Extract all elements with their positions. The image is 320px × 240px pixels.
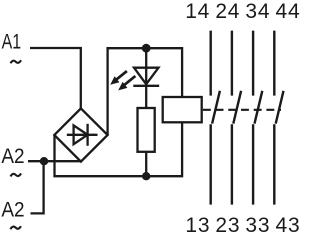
contact 3 blade [255,91,263,124]
wire A2 bottom up to junction [31,161,44,213]
contact 1 moving terminal 13 [209,124,211,204]
svg-text:33: 33 [245,214,270,235]
LED arrow 1 shaft [116,71,127,80]
bridge rectifier diamond [54,108,107,161]
wire DC minus rail: bridge left vertex down, across, up to coil bottom [55,122,183,176]
svg-text:23: 23 [215,214,240,235]
contact 4 fixed terminal 44 [273,31,275,96]
LED arrow 1 head [110,76,119,85]
junction dot bottom rail [142,172,150,180]
contact 2 fixed terminal 24 [231,31,233,96]
svg-text:A2: A2 [1,199,24,222]
mechanical link dashed line [203,109,281,111]
tilde A1 [10,60,21,63]
resistor R [138,108,155,152]
svg-text:44: 44 [276,0,300,23]
contact 2 blade [233,91,241,124]
junction dot top rail [142,44,151,53]
contact 1 blade [212,91,220,124]
wire DC plus rail: bridge right vertex up, across, down to coil top [108,48,183,135]
tilde A2 middle [10,173,21,176]
wire resistor bottom to DC minus rail [145,152,147,177]
contact 4 blade [276,91,284,124]
bridge diode triangle [74,125,88,144]
contact 3 fixed terminal 34 [252,31,254,96]
wire A2 middle to bridge bottom [28,160,82,162]
LED arrow 2 shaft [124,76,136,85]
svg-text:43: 43 [276,214,300,235]
contact 4 moving terminal 43 [273,124,275,204]
bridge diode cathode bar [86,124,88,146]
contact 2 moving terminal 23 [231,124,233,204]
LED cathode bar [133,85,159,87]
contact 1 fixed terminal 14 [209,31,211,96]
svg-text:24: 24 [215,0,240,23]
svg-text:A1: A1 [2,30,22,53]
wire LED branch vertical [145,48,147,108]
svg-text:34: 34 [245,0,270,23]
tilde A2 bottom [10,226,21,229]
contact 3 moving terminal 33 [252,124,254,204]
svg-text:14: 14 [185,0,210,23]
LED arrow 2 head [118,82,127,91]
bridge diode lead [67,134,98,136]
relay coil K [163,97,202,122]
wire A1 to bridge top [30,48,81,110]
svg-text:A2: A2 [1,145,24,168]
svg-text:13: 13 [185,214,210,235]
junction dot A2 [40,157,48,165]
LED triangle [134,68,159,85]
